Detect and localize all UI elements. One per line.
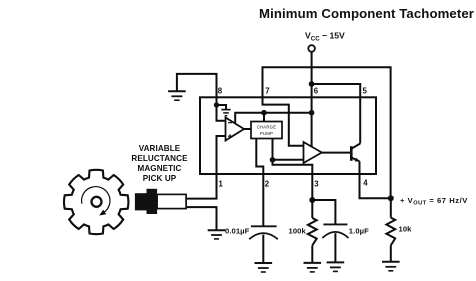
- capacitor C2 1.0uF: [323, 223, 347, 225]
- svg-text:+ VOUT = 67 Hz/V: + VOUT = 67 Hz/V: [400, 196, 468, 207]
- comparator non-inverting input mark: [228, 134, 232, 138]
- ground 10k: [382, 262, 400, 271]
- svg-text:3: 3: [314, 180, 319, 189]
- op-amp buffer U1b: [304, 142, 322, 163]
- ground internal: [221, 110, 230, 116]
- gear rotation arrow: [82, 187, 110, 213]
- transistor Q1: [350, 146, 353, 161]
- node pin 6 internal: [309, 110, 315, 116]
- wire pin 7 internal to buffer upper input: [263, 97, 304, 146]
- node charge pump top: [261, 110, 267, 116]
- wire pin 8 internal: [217, 97, 226, 120]
- node pin 8 internal: [214, 102, 219, 107]
- svg-text:1.0µF: 1.0µF: [349, 226, 369, 235]
- ground C1: [255, 263, 273, 272]
- gear wheel: [64, 170, 128, 234]
- svg-text:PICK UP: PICK UP: [143, 174, 177, 183]
- svg-text:100k: 100k: [289, 226, 307, 235]
- wire pickup return: [186, 207, 217, 230]
- svg-text:7: 7: [265, 87, 269, 96]
- gear hub: [92, 197, 102, 207]
- wire pin 1 external: [186, 174, 217, 199]
- wire comparator output: [244, 128, 251, 130]
- magnetic pickup body: [135, 193, 147, 210]
- node Vout: [388, 195, 394, 201]
- svg-text:2: 2: [265, 180, 270, 189]
- svg-text:VCC − 15V: VCC − 15V: [305, 31, 345, 43]
- node charge pump output: [270, 157, 276, 163]
- wire to internal ground: [217, 105, 227, 109]
- ground pin 8: [168, 91, 186, 100]
- comparator inverting input mark: [228, 122, 232, 124]
- wire Vcc to pin 5: [312, 84, 361, 144]
- svg-text:MAGNETIC: MAGNETIC: [138, 164, 182, 173]
- svg-text:VARIABLE: VARIABLE: [139, 144, 181, 153]
- op-amp comparator U1a: [226, 118, 245, 141]
- ground pickup: [208, 230, 226, 239]
- charge pump block: [251, 122, 282, 139]
- svg-text:8: 8: [218, 87, 223, 96]
- node Vcc junction: [309, 81, 315, 87]
- wire pin 1 internal to + input: [217, 136, 226, 174]
- resistor R2 10k: [390, 198, 392, 217]
- wire pin 6 to buffer: [311, 113, 313, 147]
- svg-text:1: 1: [219, 180, 224, 189]
- ground 100k: [304, 263, 322, 272]
- svg-text:RELUCTANCE: RELUCTANCE: [131, 154, 188, 163]
- wire pin 3 node to C2: [312, 200, 335, 224]
- resistor R1 100k: [311, 200, 313, 218]
- svg-text:5: 5: [363, 87, 368, 96]
- svg-text:CHARGE: CHARGE: [257, 125, 277, 130]
- Vcc terminal: [308, 45, 315, 52]
- capacitor C1 0.01uF: [251, 225, 277, 227]
- wire pin 8 to external ground: [177, 74, 217, 97]
- op-amp IC package U1: [200, 97, 376, 174]
- wire emitter to pin 4 out: [360, 161, 391, 198]
- wire stub to charge pump: [263, 113, 265, 122]
- svg-text:0.01µF: 0.01µF: [225, 226, 250, 235]
- svg-text:4: 4: [363, 179, 368, 188]
- wire charge pump to pin 3: [273, 139, 313, 201]
- wire comparator top to charge pump rail: [235, 113, 311, 124]
- wire pin 6 from Vcc node: [311, 84, 313, 113]
- ground C2: [327, 262, 345, 271]
- node pin 3 junction: [309, 197, 315, 203]
- svg-text:Minimum Component Tachometer: Minimum Component Tachometer: [259, 6, 474, 21]
- wire buffer output to base: [322, 152, 352, 154]
- wire to buffer lower input: [273, 159, 304, 161]
- wire Vcc stem: [311, 52, 313, 84]
- svg-text:PUMP: PUMP: [260, 131, 273, 136]
- wire pin 7 feedback top rail: [263, 67, 391, 198]
- svg-text:6: 6: [314, 87, 319, 96]
- wire charge pump to pin 2: [256, 139, 263, 226]
- svg-text:10k: 10k: [399, 225, 413, 234]
